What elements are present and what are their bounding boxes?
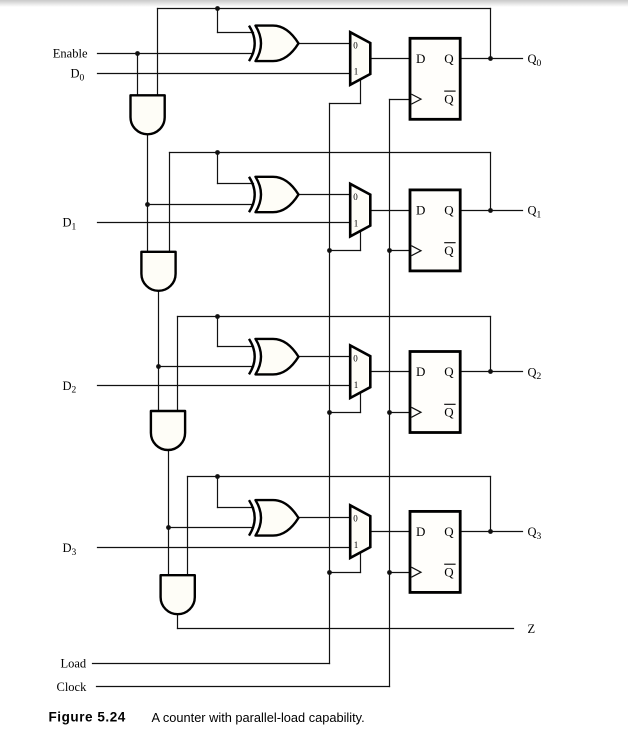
node Q2 junction <box>488 369 493 374</box>
wire Q2 feedback top <box>178 316 491 318</box>
wire mux3 select to Load rail <box>330 572 361 574</box>
flip-flop FF4 <box>410 511 460 592</box>
wire tap down to XOR3 top input <box>217 477 219 508</box>
svg-text:Q: Q <box>444 203 454 218</box>
svg-text:Q: Q <box>444 364 454 379</box>
node tap Q0 to XOR <box>215 6 220 11</box>
label Q2 <box>528 365 542 382</box>
node tap Q3 to XOR <box>215 474 220 479</box>
svg-text:Q: Q <box>444 405 454 420</box>
wire mux3 select vertical <box>360 553 362 573</box>
wire XOR3 top input <box>218 507 254 509</box>
svg-text:0: 0 <box>353 40 358 50</box>
node Clock rail stage 3 <box>387 570 392 575</box>
wire mux2 select to Load rail <box>330 412 361 414</box>
wire mux3 output to FF D <box>371 531 411 533</box>
mux M1 (2-to-1) <box>350 32 370 85</box>
node Clock rail stage 2 <box>387 410 392 415</box>
wire Q0 up to top wire <box>490 9 492 59</box>
wire Q1 feedback top <box>170 152 491 154</box>
wire Load rail <box>329 104 331 664</box>
svg-text:Q: Q <box>444 51 454 66</box>
label Q1 <box>528 204 542 221</box>
wire D3 input <box>98 547 351 549</box>
svg-text:Load: Load <box>61 656 87 670</box>
label Clock <box>57 680 88 694</box>
mux M4 (2-to-1) <box>350 505 370 558</box>
label Z <box>528 622 536 636</box>
wire Q3 up to top wire <box>490 477 492 532</box>
wire Q2 up to top wire <box>490 317 492 372</box>
node Q0 junction <box>488 56 493 61</box>
svg-text:1: 1 <box>354 67 359 77</box>
label Enable <box>53 46 88 60</box>
svg-text:Z: Z <box>528 622 536 636</box>
svg-text:0: 0 <box>353 513 358 523</box>
wire tap down to XOR1 top input <box>217 153 219 184</box>
wire XOR2 output to mux <box>299 356 351 358</box>
wire AND3 left input <box>168 451 170 576</box>
label D0 <box>71 67 85 84</box>
xor gate X4 <box>249 500 299 535</box>
wire D1 input <box>98 222 351 224</box>
wire mux2 select vertical <box>360 393 362 413</box>
wire AND2 out to XOR3 lower input <box>169 527 254 529</box>
svg-text:A counter with parallel-load c: A counter with parallel-load capability. <box>152 710 365 725</box>
label D3 <box>63 541 77 558</box>
node Q1 junction <box>488 208 493 213</box>
svg-text:1: 1 <box>354 380 359 390</box>
wire Q0 output <box>461 58 523 60</box>
wire D0 input <box>98 73 351 75</box>
wire D2 input <box>98 385 351 387</box>
node AND chain tap stage 1 <box>145 202 150 207</box>
node AND chain tap stage 2 <box>156 364 161 369</box>
svg-text:Enable: Enable <box>53 46 88 60</box>
wire mux2 output to FF D <box>371 371 411 373</box>
wire Clock input <box>97 686 390 688</box>
wire mux0 select to Load rail <box>330 103 361 105</box>
wire Z output <box>178 628 514 630</box>
wire XOR3 output to mux <box>299 517 351 519</box>
svg-text:D3: D3 <box>63 541 77 558</box>
label Q0 <box>528 52 542 69</box>
flip-flop FF2 <box>410 190 460 271</box>
mux M3 (2-to-1) <box>350 345 370 398</box>
svg-text:Q: Q <box>444 565 454 580</box>
svg-text:0: 0 <box>353 354 358 364</box>
wire Q3 output <box>461 531 523 533</box>
wire AND4 output down <box>177 615 179 629</box>
node Load rail stage 3 <box>327 570 332 575</box>
wire XOR1 top input <box>218 183 254 185</box>
wire AND1 left input <box>147 135 149 252</box>
wire Q3 feedback down to AND <box>187 477 189 576</box>
wire Q3 feedback top <box>188 476 491 478</box>
wire Enable input <box>98 53 254 55</box>
svg-text:D1: D1 <box>63 216 77 233</box>
svg-text:1: 1 <box>354 218 359 228</box>
label Q3 <box>528 525 542 542</box>
node Enable branch <box>135 51 140 56</box>
wire Q1 output <box>461 210 523 212</box>
wire AND1 out to XOR2 lower input <box>159 366 254 368</box>
node Clock rail stage 1 <box>387 248 392 253</box>
mux M2 (2-to-1) <box>350 184 370 237</box>
and gate A2 <box>141 252 175 291</box>
wire AND2 left input <box>158 291 160 412</box>
svg-text:D: D <box>416 203 425 218</box>
wire clock into FF0 <box>390 99 411 101</box>
wire XOR2 top input <box>218 346 254 348</box>
and gate A3 <box>151 411 185 450</box>
node tap Q2 to XOR <box>215 314 220 319</box>
svg-text:1: 1 <box>354 540 359 550</box>
svg-text:D2: D2 <box>63 379 77 396</box>
wire clock into FF3 <box>390 572 411 574</box>
and gate A4 <box>161 575 195 614</box>
wire Q0 feedback down to AND <box>157 9 159 96</box>
wire Load input <box>93 663 330 665</box>
wire Q1 up to top wire <box>490 153 492 211</box>
xor gate X3 <box>249 339 299 375</box>
svg-text:D: D <box>416 524 425 539</box>
wire AND0 left input <box>137 54 139 96</box>
caption text <box>152 710 365 725</box>
node AND chain tap stage 3 <box>166 525 171 530</box>
wire Q0 feedback top <box>158 8 491 10</box>
wire tap down to XOR2 top input <box>217 317 219 347</box>
wire Q2 output <box>461 371 523 373</box>
and gate A1 <box>131 95 165 134</box>
svg-text:D0: D0 <box>71 67 85 84</box>
wire mux1 output to FF D <box>371 210 411 212</box>
wire mux1 select vertical <box>360 231 362 251</box>
wire tap down to XOR0 top input <box>217 9 219 33</box>
svg-text:0: 0 <box>353 192 358 202</box>
wire Q1 feedback down to AND <box>169 153 171 252</box>
wire XOR1 output to mux <box>299 194 351 196</box>
node tap Q1 to XOR <box>215 150 220 155</box>
svg-text:Q: Q <box>444 524 454 539</box>
caption figure number <box>49 710 126 725</box>
wire AND0 out to XOR1 lower input <box>148 204 254 206</box>
xor gate X1 <box>249 26 299 62</box>
svg-text:D: D <box>416 51 425 66</box>
svg-text:Q1: Q1 <box>528 204 542 221</box>
xor gate X2 <box>249 177 299 212</box>
svg-text:D: D <box>416 364 425 379</box>
wire Q2 feedback down to AND <box>177 317 179 412</box>
node Load rail stage 2 <box>327 410 332 415</box>
svg-text:Q3: Q3 <box>528 525 542 542</box>
node Q3 junction <box>488 529 493 534</box>
wire mux0 select vertical <box>360 80 362 104</box>
svg-text:Q0: Q0 <box>528 52 542 69</box>
label Load <box>61 656 87 670</box>
wire XOR0 top input <box>218 32 254 34</box>
svg-text:Q: Q <box>444 243 454 258</box>
label D2 <box>63 379 77 396</box>
flip-flop FF1 <box>410 38 460 119</box>
page top shade <box>0 0 628 7</box>
svg-text:Clock: Clock <box>57 680 88 694</box>
label D1 <box>63 216 77 233</box>
wire clock into FF1 <box>390 250 411 252</box>
node Load rail stage 1 <box>327 248 332 253</box>
svg-text:Figure 5.24: Figure 5.24 <box>49 710 126 725</box>
wire mux0 output to FF D <box>371 58 411 60</box>
wire Clock rail <box>389 100 391 687</box>
svg-text:Q: Q <box>444 92 454 107</box>
flip-flop FF3 <box>410 352 460 433</box>
wire XOR0 output to mux <box>299 43 351 45</box>
svg-text:Q2: Q2 <box>528 365 542 382</box>
wire mux1 select to Load rail <box>330 250 361 252</box>
wire clock into FF2 <box>390 412 411 414</box>
